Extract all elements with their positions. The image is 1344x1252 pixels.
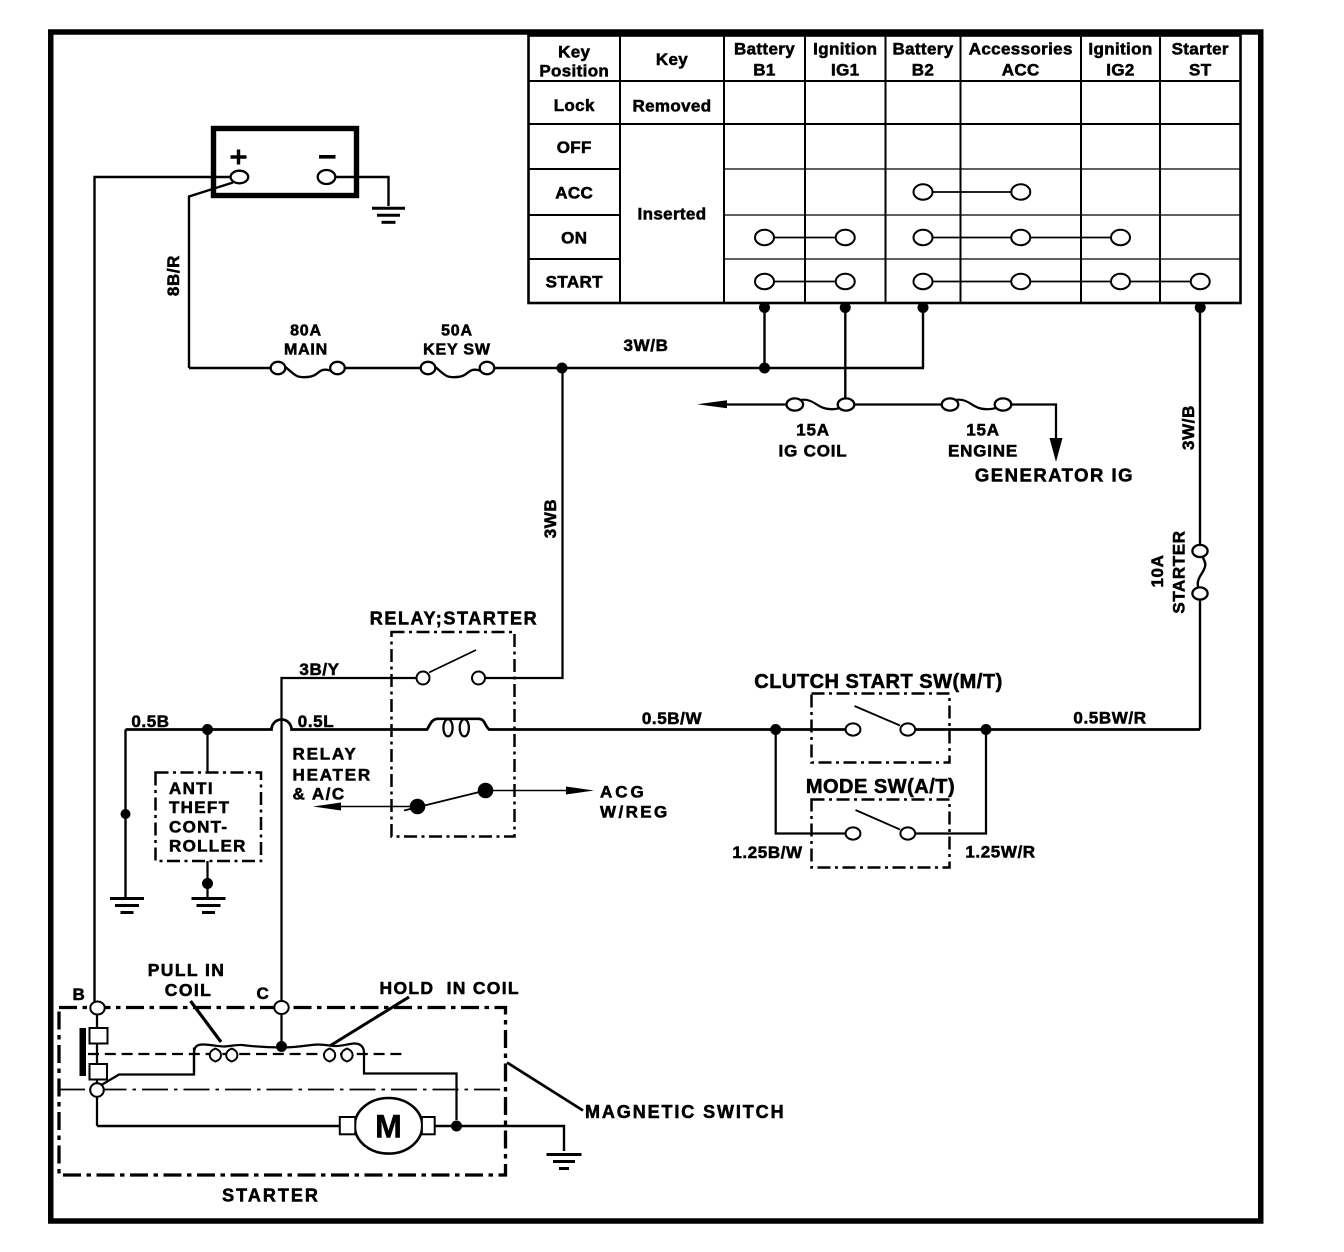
svg-text:ROLLER: ROLLER [169,837,247,856]
svg-text:ANTI: ANTI [169,779,214,798]
svg-text:Ignition: Ignition [813,40,877,59]
svg-text:8B/R: 8B/R [164,255,183,296]
svg-text:15A: 15A [796,421,830,440]
svg-text:ST: ST [1189,61,1212,80]
svg-text:3W/B: 3W/B [1179,405,1198,450]
svg-text:Inserted: Inserted [638,205,707,224]
svg-text:0.5BW/R: 0.5BW/R [1073,709,1146,728]
svg-text:STARTER: STARTER [1170,530,1189,613]
svg-text:15A: 15A [966,421,1000,440]
svg-text:Battery: Battery [734,40,795,59]
svg-text:3B/Y: 3B/Y [299,660,339,679]
svg-text:80A: 80A [290,323,322,340]
svg-text:COIL: COIL [165,980,212,1000]
svg-text:0.5B/W: 0.5B/W [642,709,703,728]
svg-text:START: START [546,273,603,292]
svg-text:& A/C: & A/C [293,785,346,804]
svg-text:B1: B1 [753,61,775,80]
svg-text:ACC: ACC [555,184,593,203]
svg-text:50A: 50A [441,323,473,340]
svg-text:ON: ON [561,229,587,248]
svg-text:M: M [375,1109,402,1145]
svg-text:MODE SW(A/T): MODE SW(A/T) [806,776,955,798]
svg-text:10A: 10A [1148,555,1167,588]
svg-text:Battery: Battery [892,40,953,59]
svg-text:ACG: ACG [600,783,647,802]
svg-text:Removed: Removed [633,97,712,116]
svg-text:Accessories: Accessories [969,40,1073,59]
svg-text:Key: Key [558,43,590,62]
svg-text:HOLD IN COIL: HOLD IN COIL [380,978,520,998]
svg-text:ACC: ACC [1002,61,1040,80]
svg-text:Ignition: Ignition [1088,40,1152,59]
svg-text:Starter: Starter [1172,40,1229,59]
svg-text:CONT-: CONT- [169,817,228,836]
svg-text:3W/B: 3W/B [624,336,669,355]
svg-text:HEATER: HEATER [293,766,372,785]
svg-text:C: C [257,984,270,1003]
svg-text:0.5B: 0.5B [131,712,169,731]
svg-text:MAGNETIC SWITCH: MAGNETIC SWITCH [585,1102,785,1122]
svg-text:0.5L: 0.5L [298,712,334,731]
svg-text:ENGINE: ENGINE [948,442,1018,461]
svg-text:RELAY;STARTER: RELAY;STARTER [370,609,538,629]
svg-text:KEY SW: KEY SW [423,342,491,359]
svg-text:1.25W/R: 1.25W/R [965,843,1035,862]
svg-text:Position: Position [539,62,609,81]
svg-text:PULL IN: PULL IN [148,960,226,980]
svg-text:MAIN: MAIN [284,342,328,359]
svg-text:GENERATOR IG: GENERATOR IG [975,465,1134,486]
svg-text:IG COIL: IG COIL [779,442,848,461]
svg-text:IG1: IG1 [831,61,859,80]
svg-text:Lock: Lock [554,96,595,115]
svg-text:STARTER: STARTER [222,1186,320,1206]
svg-text:3WB: 3WB [541,499,560,539]
svg-text:Key: Key [656,50,688,69]
svg-text:CLUTCH START SW(M/T): CLUTCH START SW(M/T) [754,671,1002,693]
svg-text:W/REG: W/REG [600,803,670,822]
svg-text:B2: B2 [912,61,934,80]
svg-text:B: B [73,985,86,1004]
svg-text:1.25B/W: 1.25B/W [732,843,803,862]
svg-text:RELAY: RELAY [293,745,358,764]
svg-text:IG2: IG2 [1106,61,1134,80]
svg-text:THEFT: THEFT [169,798,230,817]
svg-text:OFF: OFF [557,138,592,157]
